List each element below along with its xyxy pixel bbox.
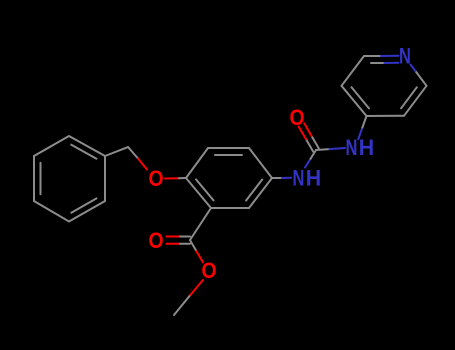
svg-text:H: H [306,165,321,190]
svg-text:O: O [289,106,304,130]
svg-text:N: N [399,44,411,69]
bond O-CH3 methyl [174,280,203,315]
bond C4-N anilide [272,177,291,179]
pyridine N1-C6 bond blue half [411,65,416,71]
bond CH2-O benzylic [128,147,147,170]
atom N-H urea upper [345,135,374,161]
svg-text:N: N [345,136,357,161]
svg-text:H: H [359,135,374,160]
bond C2 ring-C carbonyl ester [190,208,211,240]
bond C carbonyl-O ester [190,240,203,262]
bond C carbonyl-N upper [316,148,345,150]
bond phenyl-CH2 [105,147,128,156]
svg-text:O: O [148,167,163,191]
bond N-C carbonyl urea [305,150,316,168]
central benzene ring [186,148,272,208]
bond O-C1 aryl ether [165,177,186,180]
svg-text:N: N [292,166,304,191]
pyridine N1=C2 bond blue halves [381,56,399,63]
urea C=O double bond [299,123,319,151]
benzyl phenyl ring [34,136,105,222]
bond N-C4 pyridine [358,116,366,139]
svg-text:O: O [148,229,163,253]
ester C=O double bond [167,237,191,244]
atom N-H urea lower [292,165,321,191]
pyridine ring carbon edges [342,56,427,116]
